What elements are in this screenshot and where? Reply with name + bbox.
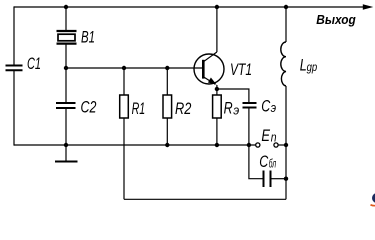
node R1 top (122, 66, 126, 70)
svg-text:C2: C2 (81, 98, 97, 117)
wire base bus (66, 67, 203, 69)
svg-text:R2: R2 (175, 99, 192, 118)
ground (55, 145, 78, 162)
node R2 bottom (165, 143, 169, 147)
svg-text:R1: R1 (132, 99, 146, 118)
terminal Eп left (256, 143, 260, 147)
svg-text:B1: B1 (81, 28, 95, 47)
node right rail top (284, 5, 288, 9)
wire emitter node to Cэ (217, 89, 249, 103)
output arrow (363, 4, 374, 9)
crystal B1 (57, 31, 77, 44)
wire Cбл right lead (271, 178, 287, 180)
node Rэ bottom (215, 143, 219, 147)
wire right rail lower (285, 86, 287, 199)
resistor Rэ (213, 95, 222, 118)
wire R1 bottom lead to bottom rail (123, 118, 125, 199)
wire Rэ bottom lead (216, 118, 218, 145)
svg-text:R: R (224, 99, 233, 118)
svg-text:n: n (271, 129, 277, 144)
wire R2 top lead (166, 68, 168, 95)
resistor R2 (163, 95, 172, 118)
watermark logo (371, 193, 375, 206)
inductor Lдр (281, 42, 286, 86)
wire bottom rail (124, 198, 286, 200)
svg-text:бл: бл (269, 157, 277, 171)
wire C2 bottom lead (65, 108, 67, 145)
svg-text:E: E (261, 126, 270, 145)
wire Cэ bottom lead (248, 108, 250, 146)
wire bottom-left bus (14, 144, 256, 146)
wire top rail (14, 6, 364, 8)
wire Cбл left branch (249, 145, 264, 179)
wire left rail lower (13, 70, 15, 145)
node C2 bottom (64, 143, 68, 147)
node B1 top (64, 5, 68, 9)
node Cбл right rail (284, 177, 288, 181)
svg-text:Выхоg: Выхоg (316, 12, 356, 27)
terminal Eп right (274, 143, 278, 147)
capacitor C2 (56, 103, 76, 108)
svg-text:C: C (259, 152, 269, 171)
transistor VT1 (194, 52, 224, 85)
svg-text:C1: C1 (27, 54, 41, 73)
capacitor C1 (6, 66, 23, 71)
capacitor Cэ (243, 103, 257, 108)
svg-text:VT1: VT1 (230, 60, 252, 79)
node base bus left (64, 66, 68, 70)
node collector top (215, 5, 219, 9)
node Eп right rail (284, 143, 288, 147)
svg-text:э: э (233, 102, 239, 117)
svg-text:э: э (271, 100, 277, 115)
svg-text:gp: gp (307, 62, 318, 74)
wire emitter lead (216, 85, 218, 95)
wire R2 bottom lead (166, 118, 168, 145)
node emitter (215, 87, 219, 91)
svg-text:C: C (261, 96, 271, 115)
resistor R1 (120, 95, 129, 118)
wire collector lead (216, 7, 218, 52)
wire Eп right to right rail (278, 144, 286, 146)
node Cэ bottom (247, 143, 251, 147)
node R2 top (165, 66, 169, 70)
wire left rail upper (13, 6, 15, 65)
wire B1 top lead (65, 7, 67, 31)
wire B1 to base bus (65, 44, 67, 103)
wire right rail upper (285, 7, 287, 42)
wire R1 top lead (123, 68, 125, 95)
capacitor Cбл (264, 171, 271, 188)
